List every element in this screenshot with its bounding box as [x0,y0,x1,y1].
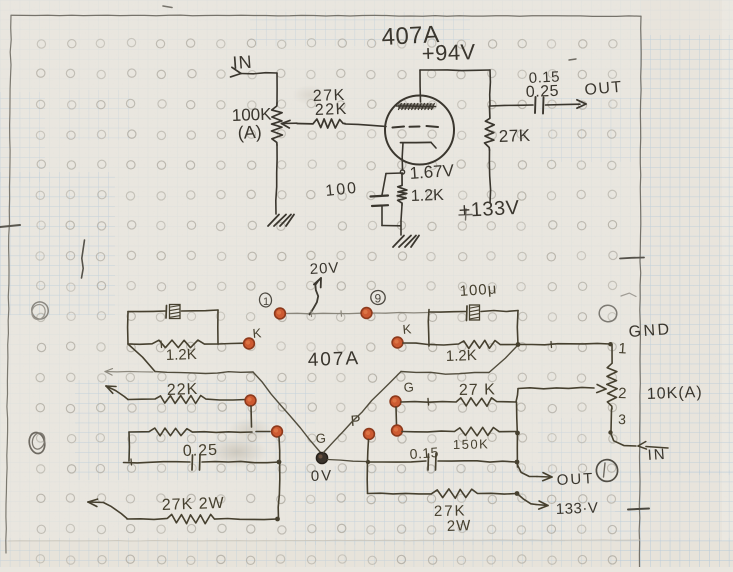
socket pin 22K row [245,395,256,406]
svg-text:27 K: 27 K [459,381,496,399]
pot wiper arrow [282,120,291,123]
wire pot to ground [276,145,277,214]
wire cap to OUT [546,103,581,106]
stray mark top [163,6,172,8]
capacitor bypass left (electrolytic) [165,306,168,319]
tube grid (dashed) [393,127,405,128]
arrow 22K row [106,385,116,388]
stray plus mark [459,214,472,217]
svg-text:9: 9 [375,292,382,306]
svg-text:27K: 27K [498,126,531,146]
svg-text:K: K [402,321,412,337]
wire loop1 right vertical [217,310,219,344]
svg-text:133·V: 133·V [556,500,599,518]
svg-text:1: 1 [618,340,628,358]
svg-text:27K 2W: 27K 2W [162,495,225,514]
svg-text:G: G [315,430,326,446]
wire 0.15 right [438,461,516,462]
wire plate lead [419,70,422,102]
socket pin K right [392,337,403,348]
wire right bus vertical [517,402,518,467]
tube V1 envelope [385,96,454,165]
capacitor Cout 0.15/0.25 [534,97,537,113]
potentiometer VR1 100K(A) [272,103,283,145]
page border left [6,16,11,554]
capacitor 100u right (electrolytic) [466,306,469,321]
junction 0.15/pinP [366,460,370,464]
wire loop1 top right [182,310,219,311]
wire row3 to pin [256,431,270,433]
svg-text:+94V: +94V [421,39,476,66]
arrow 27K2W row [88,499,98,502]
capacitor 0.15 (plates) [427,454,430,470]
capacitor 0.25 (plates) [191,455,194,470]
stray pencil stroke [82,240,85,278]
svg-text:G: G [403,379,414,395]
socket pin heater-left [275,308,286,319]
junction 150K/bus [515,431,520,436]
wire 0.25 left [124,462,191,463]
wire loop1 to pin K [218,342,244,345]
wire 22K lead-in [106,386,128,400]
wire row3 left vertical [128,432,130,461]
svg-text:1: 1 [263,296,269,308]
resistor 27K 2W right [368,489,518,498]
wire ground bus diagonal right (V) [324,372,402,453]
stray dash right border upper [620,258,644,259]
stray mark left edge [0,225,20,227]
wire pin P down [367,440,368,494]
resistor RL 27K [485,106,495,150]
capacitor Ck 100 (plates) [371,196,389,197]
wire pin to row3 [250,406,253,427]
tube cathode [401,141,432,143]
resistor 22K (layout) [128,396,246,404]
tick 0.25 row [130,459,133,465]
svg-text:100: 100 [325,180,359,200]
wire plate node vertical [489,70,492,106]
wire ground bus horizontal left [155,372,253,374]
wire bypass cap to ground [381,207,383,226]
doodle circle left lower [27,431,46,455]
wire loop1 top left [128,310,165,313]
wire 27K to +133V [489,150,490,203]
133V arrowhead [539,506,548,510]
svg-text:20V: 20V [309,259,340,278]
OUT arrowhead (bottom) [543,477,552,481]
wire grid resistor to tube [345,124,386,127]
20V arrow [310,279,321,315]
wire bus to OUT [518,465,538,477]
resistor Rk 1.2K [397,174,407,205]
socket pin row3 [272,426,283,437]
page border right [639,16,641,567]
junction 0.25/pin-row3 [277,460,282,465]
wire pin G down [395,407,398,425]
svg-text:3: 3 [618,411,627,427]
pin marker (1) [259,292,273,308]
wire ground bus horizontal right [401,372,489,375]
wire IN horizontal [241,73,277,74]
wire pin9 to cap loop [371,312,428,315]
socket pin 150K row [392,425,403,436]
resistor 1.2K left (cathode) [128,340,218,348]
wire plate top horizontal [420,69,490,72]
svg-text:1.67V: 1.67V [409,161,455,183]
tube plate (anode) [397,104,436,110]
resistor 1.2K right (cathode) [429,340,518,348]
junction 27K2W/pin-row3 [275,517,280,522]
socket pin K left [244,338,255,349]
wire loop1 left vertical [127,312,129,345]
wire cathode R to ground [401,205,402,235]
tick 1.2K-right row [550,342,553,348]
wire 0V to 0.15 row [328,460,367,462]
page border top [11,15,641,16]
doodle circle left upper [30,300,50,321]
socket pin G right [390,396,401,407]
tick 1.2K-left row [160,341,163,348]
pin marker (9) [370,290,386,305]
junction loop2 bottom-right [516,342,521,347]
svg-text:K: K [252,325,262,341]
node cathode (1.67V) [400,170,404,174]
svg-text:0V: 0V [311,467,334,485]
wire loop2 top right [481,311,518,312]
svg-text:22K: 22K [315,101,349,119]
stray scribble right border [621,293,636,296]
tick heater wire a [310,311,313,317]
wire loop2 top left [429,311,466,314]
pot wiper arrowhead [597,389,606,393]
wire ground bus rise right [489,346,518,373]
svg-text:+133V: +133V [458,197,520,222]
wire 1.2K row to pot pin1 [518,343,610,344]
resistor R-grid 22K [297,119,345,128]
wire ground bus from loop1 [128,344,155,372]
wire ground bus diagonal left (V) [253,372,321,453]
svg-text:OUT: OUT [556,470,595,489]
svg-text:100μ: 100μ [459,280,498,300]
svg-text:(A): (A) [237,122,262,143]
wire 0.15 left [368,461,426,462]
socket pin heater-right [361,308,372,319]
wire node to bypass cap [386,172,403,175]
wire pot pin3 to IN [611,433,637,447]
svg-text:OUT: OUT [584,79,624,99]
wire heater pin1 to pin9 [285,312,361,315]
junction 27K row mid [427,399,430,406]
wire pin K to loop2 [403,343,428,345]
svg-text:1.2K: 1.2K [166,346,197,364]
resistor 27K right (layout) [401,398,516,407]
svg-text:150K: 150K [453,436,490,452]
resistor 150K (layout) [402,427,518,436]
svg-text:GND: GND [628,321,672,341]
wire cathode lead [401,143,404,170]
center pin 0V [316,452,327,463]
junction 27K2W right/bus [515,491,520,496]
wire pot top vertical [276,73,278,103]
OUT arrowhead [577,104,586,108]
wire plate node to cap [490,105,533,106]
svg-text:IN: IN [647,446,667,464]
junction pot pin3 [608,430,612,434]
page border bottom faint [8,540,640,541]
wire 27K2W lead-in [88,502,127,519]
svg-text:2W: 2W [447,517,472,535]
socket pin P [364,429,375,440]
faint arrow ground bus left [105,369,113,372]
resistor row3 (layout) [129,428,252,436]
svg-text:0.15: 0.15 [409,444,439,462]
svg-text:0.25: 0.25 [526,83,560,101]
junction pot pin1 [608,342,612,346]
svg-text:407A: 407A [307,348,360,371]
input arrow [231,74,242,77]
svg-text:10K(A): 10K(A) [647,384,703,403]
wire IN stub [646,447,668,449]
doodle circle near OUT [595,459,618,483]
wire to 133V [517,494,536,505]
wire 27K row rise [516,389,518,402]
resistor 27K 2W left [127,514,277,523]
wire to pot wiper [518,387,594,388]
IN arrowhead (right) [638,442,646,447]
svg-text:1.2K: 1.2K [446,347,477,365]
wire loop2 left vertical [427,310,430,347]
stray dash right border lower [628,509,649,510]
svg-text:2: 2 [618,385,627,402]
wire pot pin3 lead [610,409,613,431]
ground (pot) [268,215,279,227]
svg-text:22K: 22K [167,381,199,399]
junction 0.15/bus [515,460,520,465]
wire pin row3 down [278,437,280,520]
svg-text:1.2K: 1.2K [411,187,445,205]
stray tick near +94V [569,59,576,60]
potentiometer 10K(A) [607,345,617,410]
wire loop2 right vertical [516,311,519,346]
doodle circle right upper [598,304,618,323]
wire 0.25 right [202,461,280,462]
ground (cathode) [393,236,404,248]
tick heater wire b [340,311,343,316]
